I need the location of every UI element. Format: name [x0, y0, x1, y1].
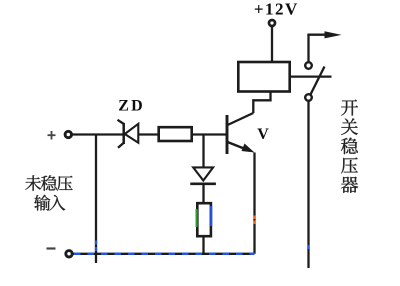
wire: left vertical (+ rail down past - rail) — [95, 135, 97, 264]
relay coil K (box) — [238, 62, 289, 92]
label + — [48, 131, 56, 140]
stray green mark on R2 left edge — [196, 209, 198, 227]
wire: +12V to relay coil — [271, 27, 273, 63]
transistor V (NPN) — [227, 113, 255, 154]
wire: upper contact stub — [307, 35, 309, 63]
wire: diode to resistor R2 — [202, 184, 204, 203]
relay contact: upper stationary contact — [305, 62, 312, 69]
terminal: + input — [65, 131, 71, 137]
label: 开关稳压器 (switching regulator) — [341, 100, 358, 193]
stray orange marks on emitter wire — [253, 216, 255, 225]
arrowhead: output to load — [325, 31, 342, 38]
wire: lower contact down — [307, 101, 309, 268]
zener diode ZD — [118, 120, 139, 148]
wire: zener to resistor R1 — [138, 133, 158, 135]
stray blue mark on wire — [307, 245, 309, 249]
terminal: - input — [66, 251, 72, 257]
diode D (shunt) — [190, 167, 216, 183]
relay contact: lower stationary contact — [305, 94, 312, 101]
label: 未稳压 (unregulated) line 1 — [25, 175, 72, 191]
terminal: +12V supply — [269, 20, 275, 26]
svg-text:V: V — [257, 126, 269, 143]
wire: bottom rail — [73, 253, 255, 255]
wire: + terminal to zener — [72, 133, 123, 135]
wire: output arrow line — [307, 34, 328, 36]
resistor R1 (series base resistor) — [159, 127, 192, 141]
stray blue marks on left vertical wire — [95, 241, 97, 252]
wire: R1 to transistor base — [192, 133, 226, 135]
resistor R2 (shunt) — [197, 203, 211, 236]
svg-text:+12V: +12V — [254, 0, 299, 19]
wire: junction down to diode — [202, 135, 204, 168]
wire: emitter down — [253, 153, 255, 254]
wire: R2 to bottom rail — [202, 237, 204, 254]
relay contact: movable blade — [311, 67, 325, 95]
svg-text:ZD: ZD — [118, 98, 145, 115]
wire: collector zigzag to relay — [253, 92, 270, 114]
wire: relay coil to contact actuator — [290, 75, 332, 77]
wire: bottom rail highlight (blue dash) — [74, 253, 255, 255]
label: 输入 (input) line 2 — [34, 195, 65, 211]
label - — [47, 247, 56, 249]
stray blue mark on R2 right edge — [210, 206, 212, 226]
